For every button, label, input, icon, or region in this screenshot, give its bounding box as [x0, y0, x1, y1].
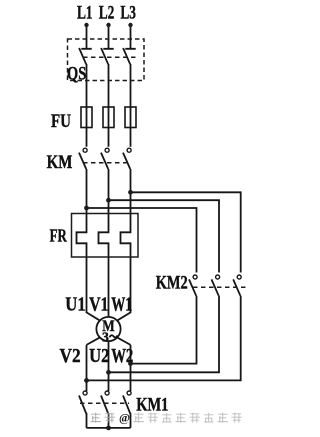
svg-text:W1: W1 — [111, 295, 132, 316]
svg-text:U2: U2 — [89, 346, 109, 367]
svg-text:L2: L2 — [99, 3, 115, 24]
svg-text:U1: U1 — [65, 295, 85, 316]
svg-text:FU: FU — [51, 112, 71, 132]
svg-text:3: 3 — [102, 330, 109, 345]
svg-text:@: @ — [119, 411, 130, 425]
svg-text:L3: L3 — [120, 3, 136, 24]
svg-text:FR: FR — [50, 226, 68, 246]
svg-text:W2: W2 — [111, 346, 133, 367]
svg-text:KM2: KM2 — [156, 274, 188, 294]
svg-text:L1: L1 — [77, 3, 93, 24]
svg-text:KM1: KM1 — [136, 396, 168, 416]
svg-text:QS: QS — [67, 64, 86, 85]
svg-text:V2: V2 — [60, 346, 81, 367]
svg-text:KM: KM — [47, 153, 73, 173]
svg-text:V1: V1 — [89, 295, 108, 316]
